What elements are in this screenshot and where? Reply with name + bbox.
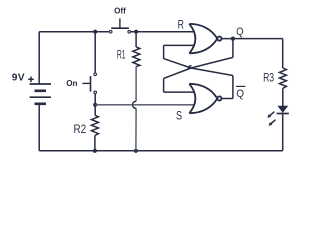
wire On branch lower <box>94 94 96 105</box>
wire feedback vertical left lower <box>163 78 165 92</box>
wire R2 to bottom rail <box>94 136 96 151</box>
pushbutton On stem <box>82 82 90 84</box>
label Qbar overbar <box>236 85 245 87</box>
LED cathode bar <box>277 113 289 115</box>
wire left rail upper <box>38 32 40 84</box>
resistor R2 <box>91 115 98 135</box>
svg-text:R: R <box>178 17 185 31</box>
wire vertical Q right <box>232 39 234 58</box>
wire feedback vertical left upper <box>163 45 165 58</box>
pushbutton On top contact <box>94 73 97 76</box>
svg-text:9V: 9V <box>12 73 25 84</box>
resistor R3 <box>279 68 286 88</box>
LED arrow 1 <box>267 112 274 118</box>
pushbutton Off left contact <box>109 30 112 33</box>
wire vertical Qbar right <box>232 76 234 99</box>
node junction Q <box>231 37 235 41</box>
pushbutton Off stem <box>119 18 121 28</box>
node junction bottom R2 <box>93 149 97 153</box>
svg-text:Q: Q <box>236 26 244 38</box>
wire R1 to hop <box>135 67 137 102</box>
pushbutton On bottom contact <box>94 91 97 94</box>
svg-text:On: On <box>66 79 77 88</box>
wire top rail left <box>39 31 109 33</box>
node junction bottom R1 <box>134 149 138 153</box>
battery B1 plate long top <box>30 83 52 85</box>
battery plus sign <box>28 77 34 83</box>
battery B1 plate short <box>35 90 47 93</box>
wire hop to bottom rail <box>135 108 137 150</box>
wire bottom gate upper input <box>164 91 194 93</box>
svg-text:S: S <box>176 108 182 122</box>
LED arrow 2 <box>269 120 276 126</box>
wire diagonal Q to bottom gate <box>164 57 233 78</box>
wire hop over S wire <box>133 101 137 108</box>
svg-text:R2: R2 <box>74 122 87 136</box>
pushbutton Off actuator bar <box>111 27 129 29</box>
wire right rail to R3 <box>282 39 284 68</box>
wire junction to R2 <box>94 105 96 116</box>
battery B1 plate short bottom <box>35 103 47 106</box>
wire Qbar from bubble <box>221 98 233 100</box>
wire feedback top-gate lower input <box>164 44 194 46</box>
resistor R1 <box>133 47 140 67</box>
wire LED to bottom rail <box>282 114 284 151</box>
node junction top R1 branch <box>134 30 138 34</box>
battery B1 plate long <box>30 96 52 98</box>
svg-text:Off: Off <box>114 6 126 15</box>
wire left rail lower <box>38 104 40 151</box>
wire Q output <box>221 38 282 40</box>
node junction top On branch <box>93 30 97 34</box>
pushbutton Off right contact <box>128 30 131 33</box>
LED D1 triangle <box>277 106 288 113</box>
wire S from junction to gate <box>95 104 194 106</box>
wire R1 branch upper <box>135 32 137 47</box>
svg-text:R3: R3 <box>263 70 274 84</box>
wire diagonal Qbar to top gate <box>164 59 233 76</box>
wire R3 to LED <box>282 88 284 106</box>
wire hop at diagonal crossing <box>189 66 192 70</box>
pushbutton On actuator bar <box>90 76 92 92</box>
wire off-button to R junction to gate R input <box>131 31 194 33</box>
nor gate U2 bottom <box>189 84 221 113</box>
wire On branch upper <box>94 32 96 73</box>
svg-text:Q: Q <box>236 88 244 100</box>
nor gate U1 top <box>189 24 221 53</box>
svg-text:R1: R1 <box>117 48 126 62</box>
node junction S <box>93 103 97 107</box>
wire bottom rail <box>39 150 283 152</box>
